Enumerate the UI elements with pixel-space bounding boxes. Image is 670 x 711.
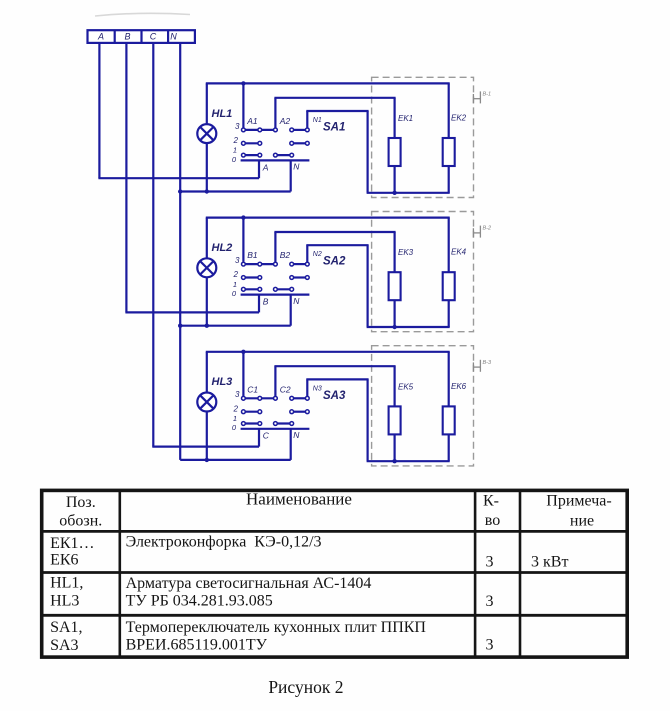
svg-text:EK1: EK1 [398, 114, 413, 123]
svg-text:В-2: В-2 [483, 226, 492, 232]
svg-text:ние: ние [570, 512, 594, 529]
svg-text:ЕК1…: ЕК1… [50, 535, 94, 552]
svg-text:Поз.: Поз. [66, 494, 96, 511]
svg-text:3: 3 [235, 256, 240, 265]
svg-text:3: 3 [486, 593, 494, 610]
svg-text:SA3: SA3 [50, 637, 78, 654]
svg-text:Электроконфорка КЭ-0,12/3: Электроконфорка КЭ-0,12/3 [126, 534, 322, 551]
svg-text:N: N [170, 31, 177, 41]
svg-text:N2: N2 [313, 251, 322, 258]
svg-text:B: B [263, 297, 269, 307]
svg-text:3: 3 [235, 390, 240, 399]
svg-text:EK5: EK5 [398, 382, 414, 391]
svg-text:EK2: EK2 [451, 114, 467, 123]
svg-text:N1: N1 [313, 117, 322, 124]
svg-text:N: N [293, 162, 300, 172]
svg-text:ЕК6: ЕК6 [50, 552, 78, 569]
svg-text:EK4: EK4 [451, 248, 467, 257]
svg-text:0: 0 [232, 155, 237, 164]
svg-text:2: 2 [233, 404, 239, 413]
svg-text:B: B [124, 31, 130, 41]
svg-text:Примеча-: Примеча- [546, 493, 611, 510]
svg-text:EK6: EK6 [451, 382, 467, 391]
svg-text:C: C [150, 31, 157, 41]
svg-text:N: N [293, 430, 300, 440]
svg-text:C: C [263, 431, 270, 441]
svg-text:ВРЕИ.685119.001ТУ: ВРЕИ.685119.001ТУ [126, 637, 268, 654]
svg-text:Рисунок 2: Рисунок 2 [268, 677, 343, 697]
svg-text:1: 1 [233, 414, 237, 423]
svg-text:A: A [97, 31, 104, 41]
svg-text:В-3: В-3 [483, 360, 493, 366]
svg-text:3: 3 [486, 637, 494, 654]
svg-text:HL1: HL1 [212, 108, 233, 120]
svg-text:N: N [293, 296, 300, 306]
svg-text:HL3: HL3 [50, 593, 79, 610]
svg-text:0: 0 [232, 423, 237, 432]
svg-text:EK3: EK3 [398, 248, 414, 257]
svg-text:SA2: SA2 [323, 256, 346, 268]
svg-text:SA1: SA1 [323, 122, 345, 134]
svg-text:C2: C2 [280, 384, 291, 394]
svg-text:ТУ РБ 034.281.93.085: ТУ РБ 034.281.93.085 [126, 593, 273, 610]
svg-text:0: 0 [232, 289, 237, 298]
svg-text:N3: N3 [313, 385, 322, 392]
svg-text:В-1: В-1 [483, 92, 492, 98]
svg-text:1: 1 [233, 146, 237, 155]
svg-text:Арматура светосигнальная АС-14: Арматура светосигнальная АС-1404 [126, 575, 372, 592]
svg-text:во: во [485, 512, 500, 529]
svg-text:Наименование: Наименование [246, 490, 352, 509]
svg-text:3 кВт: 3 кВт [531, 554, 568, 571]
svg-text:A1: A1 [246, 116, 258, 126]
svg-text:A2: A2 [279, 116, 291, 126]
svg-text:HL1,: HL1, [50, 575, 83, 592]
svg-text:К-: К- [483, 493, 499, 510]
svg-text:HL3: HL3 [212, 376, 233, 388]
svg-text:обозн.: обозн. [59, 513, 102, 530]
svg-text:2: 2 [233, 270, 239, 279]
svg-text:2: 2 [233, 136, 239, 145]
svg-text:B1: B1 [247, 250, 258, 260]
svg-text:SA1,: SA1, [50, 619, 82, 636]
svg-text:A: A [262, 162, 269, 172]
svg-text:HL2: HL2 [212, 242, 233, 254]
svg-text:C1: C1 [247, 384, 258, 394]
svg-text:3: 3 [486, 554, 494, 571]
svg-text:Термопереключатель кухонных пл: Термопереключатель кухонных плит ППКП [126, 619, 427, 636]
svg-text:SA3: SA3 [323, 390, 346, 402]
svg-text:1: 1 [233, 280, 237, 289]
svg-text:3: 3 [235, 122, 240, 131]
svg-text:B2: B2 [280, 250, 291, 260]
